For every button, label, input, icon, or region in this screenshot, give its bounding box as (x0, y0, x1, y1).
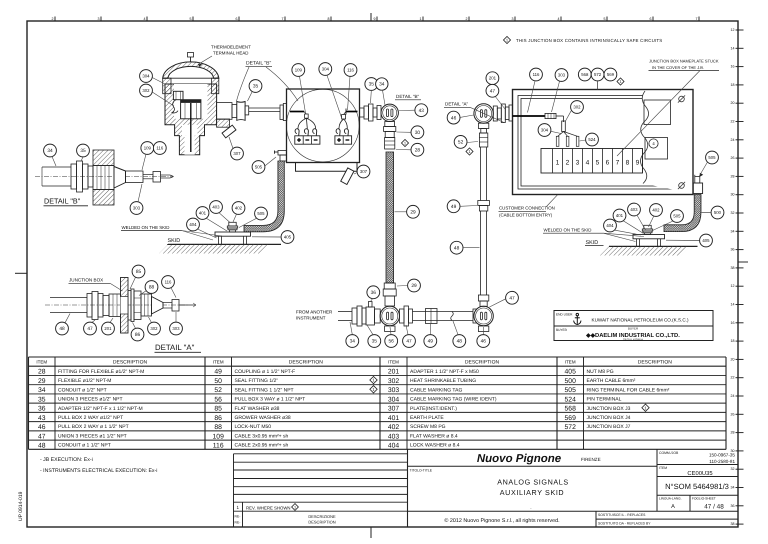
balloon 88 (145, 281, 158, 294)
balloon 505 (252, 161, 265, 174)
balloon 56 (385, 335, 398, 348)
svg-text:403: 403 (388, 433, 400, 440)
svg-text:PLATE(INST.IDENT.): PLATE(INST.IDENT.) (410, 406, 457, 412)
svg-text:36: 36 (731, 504, 735, 508)
cover lower plate (645, 138, 668, 160)
svg-text:88: 88 (149, 285, 155, 291)
thermoelement terminal head (163, 53, 230, 155)
balloon 500 (711, 206, 724, 219)
svg-text:SEAL FITTING 1/2": SEAL FITTING 1/2" (235, 378, 279, 384)
svg-text:304: 304 (388, 396, 400, 403)
svg-text:5: 5 (604, 17, 606, 21)
svg-text:SOSTITUISCE IL - REPLACES: SOSTITUISCE IL - REPLACES (598, 513, 646, 517)
svg-text:56: 56 (214, 396, 222, 403)
earth plate left (215, 232, 251, 236)
svg-text:29: 29 (410, 210, 416, 216)
svg-text:- INSTRUMENTS ELECTRICAL EXEC: - INSTRUMENTS ELECTRICAL EXECUTION: Ex-i (40, 468, 157, 474)
svg-text:405: 405 (565, 369, 577, 376)
svg-text:48: 48 (59, 326, 65, 332)
svg-text:302: 302 (388, 378, 400, 385)
union 35 (71, 164, 77, 189)
junction box wall (121, 278, 129, 334)
svg-text:49: 49 (428, 339, 434, 345)
svg-text:46: 46 (38, 424, 46, 431)
svg-text:16: 16 (731, 321, 735, 325)
svg-text:24: 24 (731, 138, 735, 142)
balloon 304 (319, 63, 332, 76)
svg-text:22: 22 (731, 120, 735, 124)
svg-text:CABLE MARKING TAG: CABLE MARKING TAG (410, 387, 462, 393)
balloon 4 small (649, 139, 658, 148)
svg-text:ADAPTER 1 1/2" NPT-F x M50: ADAPTER 1 1/2" NPT-F x M50 (410, 369, 479, 375)
svg-text:DESCRIPTION: DESCRIPTION (638, 360, 673, 366)
terminal block right (335, 136, 352, 144)
svg-text:401: 401 (199, 211, 207, 216)
svg-text:JUNCTION BOX NAMEPLATE STUCK: JUNCTION BOX NAMEPLATE STUCK (649, 59, 719, 64)
svg-text:505: 505 (255, 165, 263, 170)
svg-text:49: 49 (214, 369, 222, 376)
balloon 85 (132, 265, 145, 278)
svg-text:29: 29 (411, 283, 417, 289)
svg-text:572: 572 (565, 424, 577, 431)
svg-text:ANALOG SIGNALS: ANALOG SIGNALS (497, 478, 569, 487)
svg-text:20: 20 (731, 357, 735, 361)
svg-text:116: 116 (165, 280, 172, 285)
svg-text:50: 50 (214, 378, 222, 385)
svg-text:END USER: END USER (556, 313, 573, 317)
svg-text:34: 34 (47, 148, 53, 154)
balloon 29 (408, 279, 421, 292)
svg-text:116: 116 (213, 443, 224, 450)
svg-text:COMM./JOB: COMM./JOB (659, 451, 679, 455)
svg-text:ITEM: ITEM (565, 360, 576, 365)
svg-text:COUPLING ø 1 1/2" NPT-F: COUPLING ø 1 1/2" NPT-F (235, 369, 296, 375)
svg-text:116: 116 (156, 146, 163, 151)
svg-text:LOCK-NUT M50: LOCK-NUT M50 (235, 424, 272, 430)
svg-text:N°SOM 5464981/3: N°SOM 5464981/3 (665, 482, 729, 491)
svg-text:12: 12 (731, 284, 735, 288)
svg-text:1: 1 (294, 506, 296, 510)
conduit 34 (42, 166, 71, 168)
bolt stack left (229, 222, 236, 226)
svg-text:35: 35 (372, 339, 378, 345)
svg-text:110-2580-81: 110-2580-81 (709, 459, 735, 464)
svg-text:36: 36 (731, 248, 735, 252)
svg-text:LOCK WASHER ø 8.4: LOCK WASHER ø 8.4 (410, 443, 460, 449)
gland body (93, 166, 114, 190)
conduit 48 (50, 297, 87, 299)
svg-text:48: 48 (38, 443, 46, 450)
svg-text:86: 86 (135, 332, 141, 338)
svg-text:7: 7 (616, 160, 620, 167)
svg-text:35: 35 (253, 84, 259, 90)
balloon 304 (140, 70, 153, 83)
svg-text:4: 4 (558, 17, 560, 21)
inst plate tag left (222, 125, 236, 138)
svg-text:43: 43 (38, 415, 46, 422)
svg-text:30: 30 (415, 130, 421, 136)
balloon 303 (130, 202, 143, 215)
pull box 46 top elbow (474, 104, 493, 123)
balloon 405 (700, 234, 713, 247)
pipe 56 to elbow 46 (400, 309, 405, 323)
svg-text:20: 20 (731, 101, 735, 105)
balloon 48 (453, 335, 466, 348)
svg-text:.: . (530, 505, 531, 511)
svg-text:302: 302 (573, 105, 581, 110)
svg-text:150-0967-35: 150-0967-35 (709, 453, 735, 458)
svg-text:WELDED ON THE SKID: WELDED ON THE SKID (544, 228, 592, 233)
svg-text:BUYER: BUYER (628, 327, 639, 331)
JB nameplate on cover (644, 100, 671, 125)
title block (408, 449, 739, 527)
svg-text:47: 47 (38, 433, 46, 440)
right edge ruler ticks (731, 28, 749, 526)
reducing cone (114, 167, 126, 189)
balloon 402 (232, 202, 245, 215)
conduit 48 lower (480, 211, 482, 295)
svg-text:48: 48 (457, 339, 463, 345)
svg-text:32: 32 (731, 211, 735, 215)
bolt stack right (644, 225, 651, 229)
svg-text:5: 5 (596, 160, 600, 167)
detail A assembly (45, 278, 196, 334)
svg-text:302: 302 (150, 326, 158, 331)
balloon 48 (56, 322, 69, 335)
svg-text:35: 35 (80, 148, 86, 154)
svg-text:DETAIL "B": DETAIL "B" (44, 197, 81, 206)
svg-text:46: 46 (451, 115, 457, 121)
svg-text:52: 52 (214, 387, 222, 394)
washers 85 86 (128, 291, 131, 321)
svg-text:DETAIL "B": DETAIL "B" (396, 94, 420, 99)
balloon 116 (530, 68, 543, 81)
svg-text:8: 8 (328, 17, 330, 21)
dome cap (163, 62, 219, 78)
parts list table text (36, 360, 672, 450)
svg-text:116: 116 (533, 72, 540, 77)
balloon 35 (249, 80, 262, 93)
cap ears (163, 78, 171, 94)
svg-text:SCREW M8 PG: SCREW M8 PG (410, 424, 446, 430)
svg-text:26: 26 (731, 156, 735, 160)
wire curl (172, 100, 178, 113)
svg-text:568: 568 (581, 72, 589, 77)
balloon 201 (486, 72, 499, 85)
svg-text:307: 307 (388, 406, 400, 413)
svg-text:FLEXIBLE ø1/2" NPT-M: FLEXIBLE ø1/2" NPT-M (58, 378, 111, 384)
svg-text:500: 500 (565, 378, 577, 385)
svg-text:AUXILIARY SKID: AUXILIARY SKID (500, 488, 564, 497)
balloon 401 (196, 207, 209, 220)
wall blocks (93, 150, 114, 166)
support lug (217, 119, 230, 127)
svg-text:RE-: RE- (235, 515, 241, 519)
svg-text:34: 34 (38, 387, 46, 394)
svg-text:201: 201 (489, 76, 497, 81)
svg-text:UP 0914-019: UP 0914-019 (18, 491, 24, 521)
balloon 47 (403, 335, 416, 348)
svg-text:109: 109 (213, 433, 225, 440)
svg-text:404: 404 (189, 222, 197, 227)
svg-text:404: 404 (388, 443, 400, 450)
svg-text:304: 304 (142, 74, 150, 79)
svg-text:303: 303 (388, 387, 400, 394)
svg-text:NUT M8 PG: NUT M8 PG (587, 369, 614, 375)
svg-text:HEAT SHRINKABLE TUBING: HEAT SHRINKABLE TUBING (410, 378, 476, 384)
union 47 (87, 294, 92, 318)
svg-text:EARTH PLATE: EARTH PLATE (410, 415, 444, 421)
svg-text:CABLE 2x0.95 mm²+ sh: CABLE 2x0.95 mm²+ sh (235, 443, 289, 449)
svg-text:401: 401 (388, 415, 400, 422)
earth cable from JB right (664, 195, 701, 232)
svg-text:109: 109 (144, 146, 152, 151)
svg-text:48: 48 (454, 245, 460, 251)
svg-text:CONDUIT ø 1 1/2" NPT: CONDUIT ø 1 1/2" NPT (58, 443, 111, 449)
svg-text:1: 1 (556, 160, 560, 167)
svg-text:303: 303 (558, 73, 566, 78)
svg-text:A: A (671, 504, 675, 510)
balloon 46 (477, 335, 490, 348)
svg-text:116: 116 (347, 68, 354, 73)
balloon 505 (706, 151, 719, 164)
svg-text:403: 403 (630, 207, 638, 212)
skid left (168, 243, 281, 245)
svg-text:86: 86 (214, 415, 222, 422)
balloon 109 (141, 142, 154, 155)
balloon 405 (281, 231, 294, 244)
svg-text:14: 14 (731, 46, 735, 50)
svg-text:109: 109 (295, 68, 303, 73)
svg-text:18: 18 (731, 339, 735, 343)
svg-text:DETAIL "B": DETAIL "B" (246, 61, 271, 67)
svg-text:PULL BOX 2 WAY ø1/2" NPT: PULL BOX 2 WAY ø1/2" NPT (58, 415, 123, 421)
cone (152, 297, 164, 315)
svg-text:35: 35 (369, 82, 375, 88)
left wire (290, 111, 304, 113)
balloon 47 (84, 322, 97, 335)
top edge ruler ticks (52, 17, 700, 22)
sheet centre marks (370, 13, 372, 21)
balloon 201 (102, 322, 115, 335)
svg-text:INSTRUMENT: INSTRUMENT (296, 316, 326, 321)
svg-text:303: 303 (172, 326, 180, 331)
union head to instrument box (217, 103, 232, 120)
svg-text:2: 2 (52, 17, 54, 21)
cover screws (678, 95, 685, 102)
svg-text:405: 405 (284, 235, 292, 240)
balloon 403 (210, 201, 223, 214)
svg-text:88: 88 (214, 424, 222, 431)
svg-text:34: 34 (350, 339, 356, 345)
flexible conduit 29 braid (386, 152, 394, 283)
svg-text:26: 26 (731, 412, 735, 416)
svg-text:28: 28 (731, 174, 735, 178)
svg-text:38: 38 (731, 266, 735, 270)
balloon 505 (255, 207, 268, 220)
balloon 47 (506, 291, 519, 304)
svg-text:CONDUIT ø 1/2" NPT: CONDUIT ø 1/2" NPT (58, 387, 107, 393)
svg-text:404: 404 (606, 223, 614, 228)
balloon 302 (140, 84, 153, 97)
svg-text:FIRENZE: FIRENZE (581, 457, 601, 462)
svg-text:38: 38 (731, 522, 735, 526)
svg-text:9: 9 (374, 17, 376, 21)
svg-text:GROWER WASHER ø38: GROWER WASHER ø38 (235, 415, 291, 421)
balloon 307 (357, 165, 370, 178)
svg-text:304: 304 (541, 128, 549, 133)
svg-text:ITEM: ITEM (36, 360, 47, 365)
svg-text:TERMINAL HEAD: TERMINAL HEAD (213, 51, 248, 56)
svg-text:SEAL FITTING 1 1/2" NPT: SEAL FITTING 1 1/2" NPT (235, 387, 294, 393)
svg-text:568: 568 (565, 406, 577, 413)
svg-text:47: 47 (406, 339, 412, 345)
svg-text:34: 34 (731, 486, 735, 490)
svg-text:401: 401 (616, 213, 624, 218)
stem and tip (143, 174, 153, 176)
svg-text:THIS JUNCTION BOX CONTAINS INT: THIS JUNCTION BOX CONTAINS INTRINSICALLY… (516, 38, 662, 43)
svg-text:524: 524 (565, 396, 577, 403)
balloon 48 (450, 241, 463, 254)
svg-text:3: 3 (98, 17, 100, 21)
wire to terminals (556, 115, 564, 117)
svg-text:6: 6 (650, 17, 652, 21)
balloon 404 (187, 218, 200, 231)
earth stud JB (693, 183, 702, 194)
svg-text:SEOUL KOREA: SEOUL KOREA (623, 337, 643, 341)
balloon 116 (162, 276, 175, 289)
top screw (188, 53, 194, 58)
svg-text:(CABLE BOTTOM ENTRY): (CABLE BOTTOM ENTRY) (499, 213, 553, 218)
svg-text:PULL BOX 2 WAY ø 1 1/2" NPT: PULL BOX 2 WAY ø 1 1/2" NPT (58, 424, 129, 430)
balloon 116 (344, 64, 357, 77)
svg-text:6: 6 (236, 17, 238, 21)
balloon 49 (424, 335, 437, 348)
svg-text:307: 307 (233, 151, 241, 156)
svg-text:ITEM: ITEM (659, 466, 667, 470)
svg-text:49: 49 (451, 204, 457, 210)
svg-text:5: 5 (190, 17, 192, 21)
svg-text:SOSTITUITO DA - REPLACED BY: SOSTITUITO DA - REPLACED BY (598, 522, 651, 526)
balloon 43 (415, 104, 428, 117)
balloon 35 (77, 144, 90, 157)
inst plate tag bottom (341, 168, 354, 185)
svg-text:28: 28 (415, 148, 421, 154)
terminal block left (295, 136, 320, 144)
earth cable from instrument box (244, 161, 284, 232)
svg-text:FITTING FOR FLEXIBLE ø1/2" NPT: FITTING FOR FLEXIBLE ø1/2" NPT-M (58, 369, 144, 375)
svg-text:201: 201 (104, 326, 112, 331)
riser bottom fittings (384, 283, 395, 289)
svg-text:12: 12 (731, 28, 735, 32)
balloon 29 (407, 205, 420, 218)
svg-text:ADAPTER 1/2" NPT-F x 1 1/2" NP: ADAPTER 1/2" NPT-F x 1 1/2" NPT-M (58, 406, 143, 412)
balloon 28 (411, 143, 424, 156)
svg-text:402: 402 (235, 206, 243, 211)
svg-text:500: 500 (714, 210, 722, 215)
svg-text:14: 14 (731, 303, 735, 307)
svg-text:2: 2 (466, 17, 468, 21)
svg-text:7: 7 (696, 17, 698, 21)
parts list table grid (29, 357, 727, 449)
svg-text:302: 302 (142, 88, 150, 93)
svg-text:4: 4 (586, 160, 590, 167)
balloon 35 (368, 335, 381, 348)
conduit 48 upper (480, 147, 482, 201)
balloon 402 (650, 204, 663, 217)
svg-text:52: 52 (458, 140, 464, 146)
svg-text:4: 4 (144, 17, 146, 21)
balloon 303 (170, 322, 183, 335)
svg-text:505: 505 (708, 155, 716, 160)
balloon 569 (604, 68, 617, 81)
svg-text:36: 36 (371, 290, 377, 296)
svg-text:18: 18 (731, 83, 735, 87)
svg-text:35: 35 (38, 396, 46, 403)
svg-text:36: 36 (38, 406, 46, 413)
svg-text:85: 85 (214, 406, 222, 413)
svg-text:403: 403 (212, 205, 220, 210)
svg-text:THERMOELEMENT: THERMOELEMENT (211, 45, 251, 50)
svg-text:FLAT WASHER ø 8.4: FLAT WASHER ø 8.4 (410, 433, 458, 439)
svg-text:PULL BOX 3 WAY ø 1 1/2" NPT: PULL BOX 3 WAY ø 1 1/2" NPT (235, 397, 306, 403)
svg-text:UNION 3 PIECES ø1/2" NPT: UNION 3 PIECES ø1/2" NPT (58, 397, 123, 403)
svg-text:RING TERMINAL FOR CABLE 6mm²: RING TERMINAL FOR CABLE 6mm² (587, 387, 670, 393)
svg-text:TITOLO-TITLE: TITOLO-TITLE (410, 469, 433, 473)
balloon 568 (578, 68, 591, 81)
locknut 88 (134, 291, 141, 320)
svg-text:402: 402 (388, 424, 400, 431)
balloon 505 (671, 210, 684, 223)
balloon 34 (346, 335, 359, 348)
svg-text:304: 304 (322, 67, 330, 72)
cable marking tag 303 (545, 113, 556, 118)
svg-text:505: 505 (673, 214, 681, 219)
svg-text:28: 28 (731, 431, 735, 435)
probe body (126, 171, 144, 183)
execution notes (40, 457, 157, 474)
svg-text:22: 22 (731, 376, 735, 380)
balloon 404 (604, 219, 617, 232)
balloon 401 (613, 209, 626, 222)
coupling 49 (109, 294, 121, 317)
skid right (609, 245, 698, 247)
svg-text:PIN TERMINAL: PIN TERMINAL (587, 397, 622, 403)
KNPC anchor logo (574, 313, 581, 324)
svg-text:307: 307 (360, 169, 368, 174)
svg-text:FOGLIO-SHEET: FOGLIO-SHEET (692, 497, 716, 501)
svg-text:REV. WHERE SHOWN: REV. WHERE SHOWN (246, 505, 291, 510)
svg-text:47: 47 (509, 296, 515, 302)
svg-text:DESCRIPTION: DESCRIPTION (465, 360, 500, 366)
seal fitting 36 (366, 307, 375, 325)
terminal strip (541, 149, 643, 174)
svg-text:8: 8 (626, 160, 630, 167)
balloon 30 (411, 126, 424, 139)
svg-text:1: 1 (420, 17, 422, 21)
heat shrink 302 (562, 121, 566, 132)
balloon 34 (376, 78, 388, 90)
svg-text:FROM ANOTHER: FROM ANOTHER (296, 310, 333, 315)
svg-text:Nuovo Pignone: Nuovo Pignone (477, 453, 562, 465)
balloon 302 (148, 322, 161, 335)
earth stud left (278, 151, 287, 156)
svg-text:29: 29 (38, 378, 46, 385)
svg-text:RE-: RE- (235, 521, 241, 525)
svg-text:2: 2 (566, 160, 570, 167)
svg-text:DETAIL "A": DETAIL "A" (445, 102, 469, 107)
svg-text:47: 47 (87, 326, 93, 332)
